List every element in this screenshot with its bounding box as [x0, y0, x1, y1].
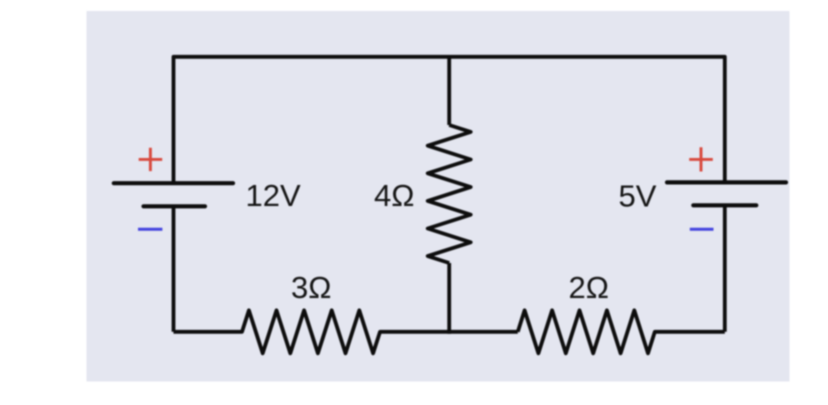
- plus sign right battery: [689, 147, 713, 171]
- wire right battery bottom: [723, 205, 727, 331]
- battery V2 long plate: [667, 180, 786, 184]
- wire middle vertical bottom: [447, 263, 451, 334]
- svg-text:2Ω: 2Ω: [569, 270, 609, 305]
- battery V1 short plate: [144, 204, 206, 208]
- minus sign left battery: [138, 228, 162, 231]
- battery V1 long plate: [114, 181, 233, 185]
- svg-text:3Ω: 3Ω: [291, 270, 331, 305]
- resistor R3 2ohm + wire bottom right: [518, 310, 725, 353]
- resistor R2 4ohm: [428, 125, 471, 263]
- svg-text:5V: 5V: [619, 179, 657, 214]
- plus sign left battery: [139, 148, 163, 171]
- wire middle vertical top: [447, 57, 451, 125]
- battery V2 short plate: [693, 203, 756, 207]
- wire bottom left + resistor R1 3ohm: [174, 310, 518, 353]
- minus sign right battery: [690, 228, 714, 231]
- svg-text:4Ω: 4Ω: [374, 178, 414, 213]
- wire left battery bottom: [172, 206, 176, 331]
- svg-text:12V: 12V: [246, 178, 301, 213]
- wire top loop: [174, 57, 725, 183]
